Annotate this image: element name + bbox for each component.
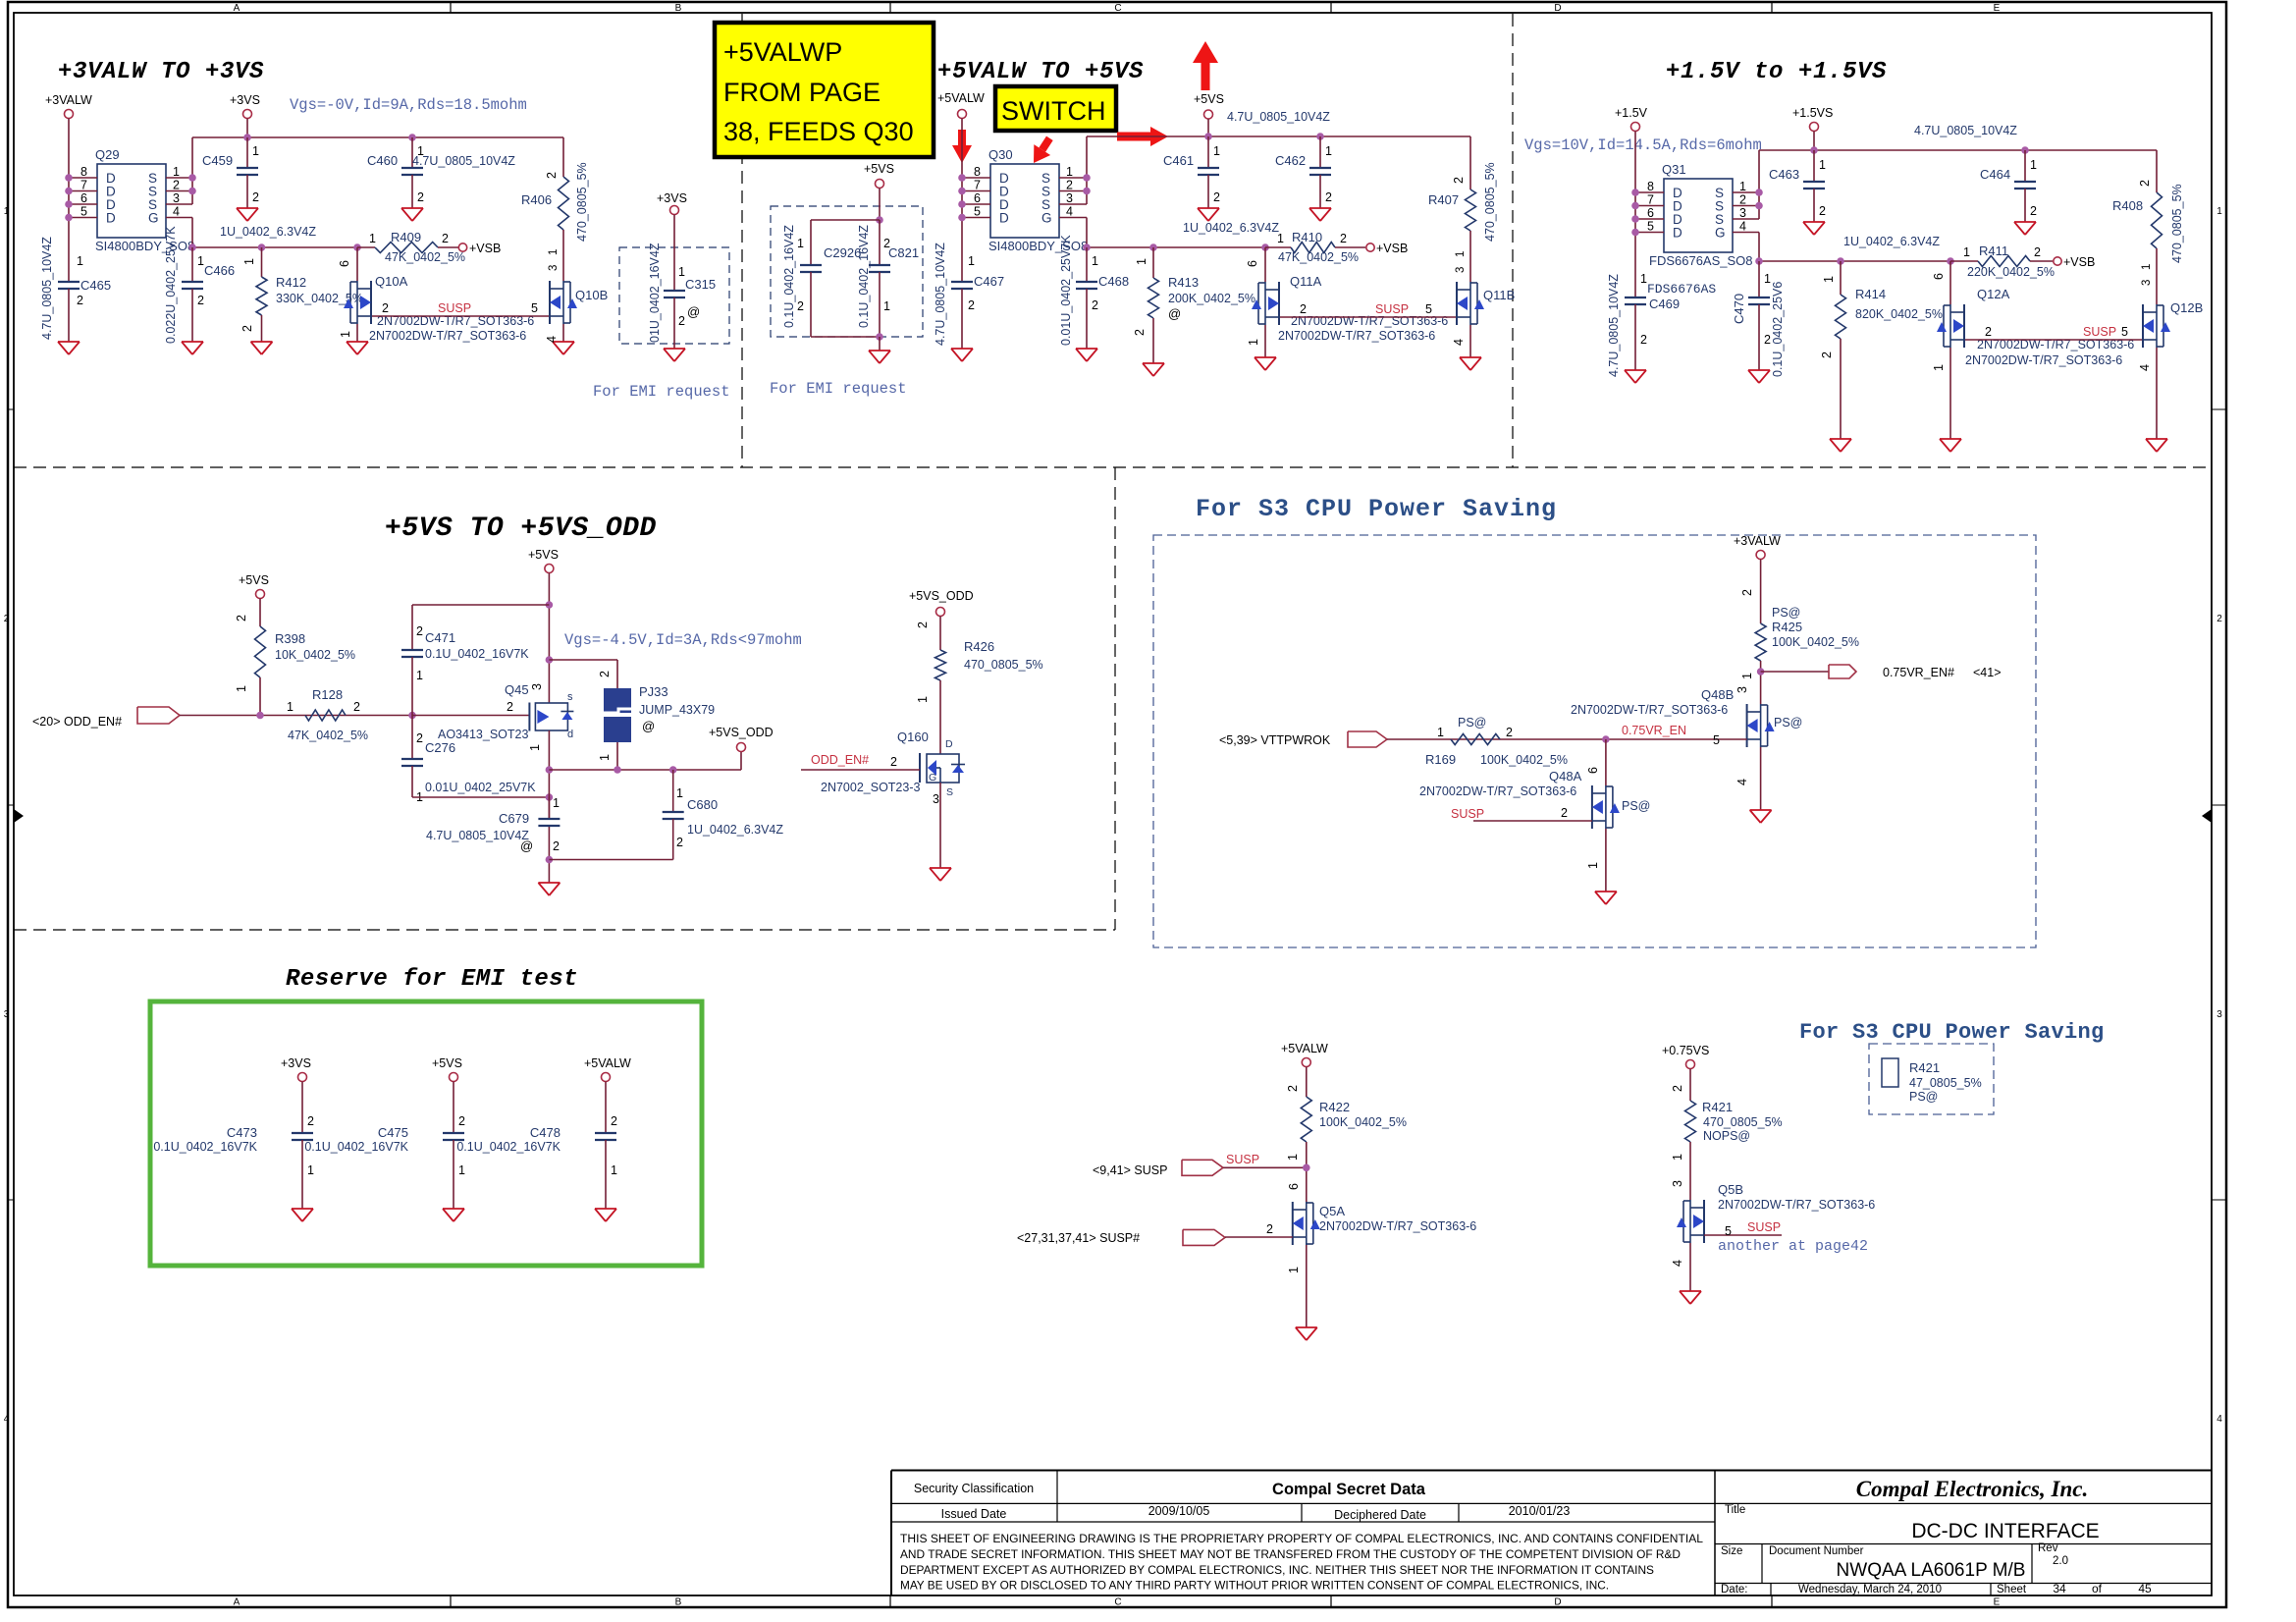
svg-text:C467: C467 [974,274,1004,289]
svg-text:1: 1 [235,685,248,692]
svg-text:R406: R406 [521,192,552,207]
svg-text:7: 7 [80,179,87,192]
svg-text:Q48B: Q48B [1701,687,1734,702]
svg-text:A: A [234,1597,240,1608]
svg-text:4: 4 [1739,220,1746,234]
svg-text:4: 4 [2138,364,2152,371]
svg-text:+5VS TO +5VS_ODD: +5VS TO +5VS_ODD [385,514,657,544]
svg-text:5: 5 [80,205,87,219]
svg-text:C821: C821 [888,245,919,260]
svg-text:Q5B: Q5B [1718,1182,1743,1197]
svg-text:Vgs=-4.5V,Id=3A,Rds<97mohm: Vgs=-4.5V,Id=3A,Rds<97mohm [564,631,802,649]
svg-text:2: 2 [1213,190,1220,204]
svg-text:1: 1 [2030,158,2037,172]
svg-text:2: 2 [353,700,360,714]
svg-text:1: 1 [1586,862,1600,869]
svg-text:FDS6676AS_SO8: FDS6676AS_SO8 [1649,253,1753,268]
svg-text:2: 2 [598,671,612,677]
svg-text:SUSP: SUSP [1375,302,1409,316]
svg-text:C462: C462 [1275,153,1306,168]
svg-text:Q10A: Q10A [375,274,408,289]
svg-text:5: 5 [1425,302,1432,316]
svg-text:R409: R409 [391,230,421,244]
svg-text:2: 2 [1266,1222,1273,1236]
svg-text:C: C [1114,1597,1121,1608]
svg-text:47_0805_5%: 47_0805_5% [1909,1076,1982,1090]
svg-text:6: 6 [1647,206,1654,220]
svg-text:3: 3 [530,683,544,690]
svg-text:1: 1 [416,669,423,682]
svg-text:C465: C465 [80,278,111,293]
svg-text:R421: R421 [1909,1060,1940,1075]
svg-text:2N7002DW-T/R7_SOT363-6: 2N7002DW-T/R7_SOT363-6 [1571,703,1728,717]
svg-text:47K_0402_5%: 47K_0402_5% [385,250,465,264]
svg-text:4.7U_0805_10V4Z: 4.7U_0805_10V4Z [1607,274,1621,377]
svg-text:R408: R408 [2112,198,2143,213]
svg-text:s: s [567,691,573,703]
svg-text:R169: R169 [1425,752,1456,767]
svg-text:1: 1 [1287,1267,1301,1273]
svg-text:1: 1 [1640,272,1647,286]
svg-text:2: 2 [235,615,248,622]
svg-text:C461: C461 [1163,153,1194,168]
svg-text:6: 6 [1932,273,1946,280]
svg-text:2: 2 [1739,193,1746,207]
svg-text:1: 1 [369,232,376,245]
svg-text:8: 8 [974,165,981,179]
svg-text:5: 5 [531,301,538,315]
svg-text:1: 1 [883,299,890,313]
svg-text:C469: C469 [1649,297,1680,311]
svg-text:1: 1 [2216,206,2222,217]
svg-text:1: 1 [1764,272,1771,286]
svg-text:MAY BE USED BY OR DISCLOSED TO: MAY BE USED BY OR DISCLOSED TO ANY THIRD… [900,1579,1609,1593]
svg-text:Q11A: Q11A [1290,274,1322,289]
svg-text:1U_0402_6.3V4Z: 1U_0402_6.3V4Z [220,225,316,239]
svg-text:Reserve for EMI test: Reserve for EMI test [286,966,578,993]
svg-text:1: 1 [339,331,352,338]
svg-text:E: E [1994,1597,2001,1608]
svg-text:+VSB: +VSB [469,242,501,255]
svg-text:C2926: C2926 [824,245,861,260]
svg-text:Date:: Date: [1721,1584,1748,1595]
svg-text:820K_0402_5%: 820K_0402_5% [1855,307,1943,321]
svg-text:1: 1 [528,744,542,751]
svg-text:+5VS_ODD: +5VS_ODD [709,726,774,739]
svg-text:DEPARTMENT EXCEPT AS AUTHORIZE: DEPARTMENT EXCEPT AS AUTHORIZED BY COMPA… [900,1563,1654,1577]
svg-text:6: 6 [1246,260,1259,267]
svg-text:1: 1 [1092,254,1098,268]
svg-text:1: 1 [968,254,975,268]
svg-text:8: 8 [80,165,87,179]
svg-text:1: 1 [1963,245,1970,259]
svg-text:1: 1 [611,1163,617,1177]
svg-text:THIS SHEET OF ENGINEERING DRAW: THIS SHEET OF ENGINEERING DRAWING IS THE… [900,1532,1703,1545]
svg-text:Q10B: Q10B [575,288,608,302]
svg-text:PS@: PS@ [1772,606,1800,620]
svg-text:For S3 CPU Power Saving: For S3 CPU Power Saving [1196,495,1557,523]
svg-text:+3VS: +3VS [281,1056,311,1070]
svg-text:<20> ODD_EN#: <20> ODD_EN# [32,715,122,729]
svg-text:3: 3 [4,1009,10,1020]
svg-text:R412: R412 [276,275,306,290]
svg-text:C679: C679 [499,811,529,826]
svg-text:NOPS@: NOPS@ [1703,1129,1750,1143]
svg-text:+5VALW: +5VALW [937,91,985,105]
svg-text:2: 2 [252,190,259,204]
svg-text:2: 2 [382,301,389,315]
svg-text:2: 2 [1506,726,1513,739]
svg-text:1: 1 [1437,726,1444,739]
svg-text:5: 5 [2121,325,2128,339]
svg-text:470_0805_5%: 470_0805_5% [575,162,589,242]
svg-text:C468: C468 [1098,274,1129,289]
svg-text:SWITCH: SWITCH [1001,96,1105,126]
svg-text:R422: R422 [1319,1100,1350,1114]
svg-text:+5VALW TO +5VS: +5VALW TO +5VS [937,59,1144,85]
svg-text:C473: C473 [227,1125,257,1140]
svg-text:+1.5V: +1.5V [1615,106,1648,120]
svg-text:C470: C470 [1732,294,1746,324]
svg-text:3: 3 [2141,280,2153,286]
svg-text:+3VS: +3VS [230,93,260,107]
svg-text:+3VS: +3VS [657,191,687,205]
svg-text:2: 2 [458,1114,465,1128]
svg-text:2010/01/23: 2010/01/23 [1509,1504,1571,1518]
svg-text:2N7002DW-T/R7_SOT363-6: 2N7002DW-T/R7_SOT363-6 [1278,329,1435,343]
svg-text:2: 2 [1133,329,1147,336]
svg-text:2N7002DW-T/R7_SOT363-6: 2N7002DW-T/R7_SOT363-6 [1965,353,2122,367]
svg-text:2: 2 [416,624,423,638]
svg-text:100K_0402_5%: 100K_0402_5% [1772,635,1859,649]
svg-text:7: 7 [1647,193,1654,207]
svg-text:D: D [1554,3,1561,14]
svg-text:1: 1 [242,258,256,265]
svg-text:4: 4 [545,336,559,343]
svg-text:Q160: Q160 [897,730,929,744]
svg-text:2: 2 [307,1114,314,1128]
svg-text:R398: R398 [275,631,305,646]
svg-text:3: 3 [1455,267,1467,273]
svg-text:D: D [1673,226,1682,241]
svg-text:Size: Size [1721,1545,1742,1557]
svg-text:1: 1 [1286,1154,1300,1161]
svg-text:SUSP: SUSP [1451,807,1484,821]
svg-text:E: E [1994,3,2001,14]
svg-text:C475: C475 [378,1125,408,1140]
svg-text:D: D [106,211,116,226]
svg-text:1: 1 [676,786,683,800]
svg-text:SI4800BDY_SO8: SI4800BDY_SO8 [95,239,194,253]
svg-text:PS@: PS@ [1458,716,1486,730]
svg-text:2: 2 [1740,589,1754,596]
svg-text:+3VALW: +3VALW [45,93,92,107]
svg-text:Q30: Q30 [988,147,1013,162]
svg-text:PS@: PS@ [1622,799,1650,813]
svg-text:2: 2 [1066,179,1073,192]
svg-text:G: G [148,211,159,226]
svg-text:1: 1 [678,265,685,279]
svg-text:1: 1 [1740,673,1754,679]
svg-text:C478: C478 [530,1125,561,1140]
svg-text:1: 1 [307,1163,314,1177]
svg-text:4: 4 [1066,205,1073,219]
svg-text:R421: R421 [1702,1100,1733,1114]
svg-text:4.7U_0805_10V4Z: 4.7U_0805_10V4Z [40,237,54,340]
svg-text:2: 2 [797,299,804,313]
svg-text:D: D [1554,1597,1561,1608]
svg-text:+5VS: +5VS [864,162,894,176]
svg-text:1: 1 [1213,144,1220,158]
svg-text:3: 3 [1671,1180,1684,1187]
svg-text:4: 4 [173,205,180,219]
svg-text:2: 2 [676,836,683,849]
svg-text:Security Classification: Security Classification [914,1482,1034,1495]
svg-text:2: 2 [611,1114,617,1128]
svg-text:B: B [675,3,682,14]
svg-text:+3VALW: +3VALW [1734,534,1781,548]
svg-text:@: @ [1168,306,1181,321]
svg-text:1: 1 [1455,251,1467,257]
svg-text:@: @ [642,719,655,733]
svg-text:2: 2 [1764,333,1771,347]
svg-text:R414: R414 [1855,287,1886,301]
svg-text:JUMP_43X79: JUMP_43X79 [639,703,715,717]
svg-text:6: 6 [974,191,981,205]
svg-text:200K_0402_5%: 200K_0402_5% [1168,292,1255,305]
svg-text:2: 2 [678,314,685,328]
svg-text:C680: C680 [687,797,718,812]
svg-text:R411: R411 [1979,243,2008,258]
svg-text:2: 2 [968,298,975,312]
svg-text:1: 1 [797,237,804,250]
svg-text:2: 2 [173,179,180,192]
svg-text:SUSP: SUSP [1747,1220,1781,1234]
svg-text:0.1U_0402_16V7K: 0.1U_0402_16V7K [425,647,529,661]
svg-text:1U_0402_6.3V4Z: 1U_0402_6.3V4Z [1843,235,1940,248]
svg-text:4: 4 [1452,339,1466,346]
svg-text:Q29: Q29 [95,147,120,162]
svg-text:2: 2 [4,614,10,624]
svg-text:Q48A: Q48A [1549,769,1582,784]
svg-text:100K_0402_5%: 100K_0402_5% [1319,1115,1407,1129]
svg-text:1: 1 [1819,158,1826,172]
svg-text:d: d [567,729,573,740]
svg-text:SUSP: SUSP [2083,325,2116,339]
svg-text:FROM PAGE: FROM PAGE [723,78,881,107]
svg-text:<5,39> VTTPWROK: <5,39> VTTPWROK [1219,733,1331,747]
svg-text:2: 2 [1671,1085,1684,1092]
svg-text:+5VS: +5VS [528,548,559,562]
svg-text:47K_0402_5%: 47K_0402_5% [288,729,368,742]
svg-text:3: 3 [1066,191,1073,205]
svg-text:Q45: Q45 [505,682,529,697]
svg-text:@: @ [520,838,533,853]
svg-text:2: 2 [1820,351,1834,358]
svg-text:0.75VR_EN: 0.75VR_EN [1622,724,1686,737]
svg-text:0.022U_0402_25V7K: 0.022U_0402_25V7K [164,226,178,344]
svg-text:220K_0402_5%: 220K_0402_5% [1967,265,2055,279]
svg-text:2N7002_SOT23-3: 2N7002_SOT23-3 [821,781,921,794]
svg-text:SUSP: SUSP [438,301,471,315]
svg-text:another at page42: another at page42 [1718,1238,1868,1255]
svg-text:45: 45 [2138,1582,2152,1595]
svg-text:C315: C315 [685,277,716,292]
svg-text:+1.5VS: +1.5VS [1792,106,1833,120]
svg-text:For EMI request: For EMI request [593,383,730,401]
svg-text:1: 1 [1066,165,1073,179]
svg-text:3: 3 [548,265,560,271]
svg-text:1: 1 [252,144,259,158]
svg-text:1: 1 [916,696,930,703]
svg-text:2: 2 [1640,333,1647,347]
svg-text:C463: C463 [1769,167,1799,182]
svg-text:R128: R128 [312,687,343,702]
svg-text:0.75VR_EN#: 0.75VR_EN# [1883,666,1954,679]
svg-text:Deciphered Date: Deciphered Date [1334,1508,1426,1522]
svg-text:1U_0402_6.3V4Z: 1U_0402_6.3V4Z [1183,221,1279,235]
svg-text:38, FEEDS Q30: 38, FEEDS Q30 [723,117,914,146]
svg-text:G: G [1715,226,1726,241]
svg-text:2N7002DW-T/R7_SOT363-6: 2N7002DW-T/R7_SOT363-6 [1291,314,1448,328]
svg-text:470_0805_5%: 470_0805_5% [2170,184,2184,263]
svg-text:Issued Date: Issued Date [941,1507,1007,1521]
svg-text:C466: C466 [204,263,235,278]
svg-text:C471: C471 [425,630,455,645]
svg-text:2N7002DW-T/R7_SOT363-6: 2N7002DW-T/R7_SOT363-6 [1419,784,1576,798]
svg-text:Rev: Rev [2038,1542,2058,1554]
svg-text:C276: C276 [425,740,455,755]
svg-text:For EMI request: For EMI request [770,380,907,398]
svg-text:Q12A: Q12A [1977,287,2010,301]
svg-text:3: 3 [1735,686,1749,693]
svg-text:1: 1 [197,254,204,268]
svg-text:PS@: PS@ [1909,1090,1938,1104]
svg-text:Compal Secret Data: Compal Secret Data [1272,1481,1426,1498]
svg-text:+5VS: +5VS [432,1056,462,1070]
svg-text:2.0: 2.0 [2053,1555,2068,1567]
svg-text:AND TRADE SECRET INFORMATION.: AND TRADE SECRET INFORMATION. THIS SHEET… [900,1547,1681,1561]
svg-text:Sheet: Sheet [1997,1584,2027,1595]
svg-text:Q5A: Q5A [1319,1204,1345,1218]
svg-text:1: 1 [598,754,612,761]
svg-text:B: B [675,1597,682,1608]
svg-text:+VSB: +VSB [2063,255,2095,269]
svg-text:+5VALW: +5VALW [584,1056,631,1070]
svg-text:4: 4 [4,1414,10,1425]
svg-text:4: 4 [2216,1414,2222,1425]
svg-text:2: 2 [2030,204,2037,218]
svg-text:<41>: <41> [1973,666,2002,679]
svg-text:2: 2 [240,325,254,332]
svg-text:Vgs=10V,Id=14.5A,Rds=6mohm: Vgs=10V,Id=14.5A,Rds=6mohm [1524,136,1762,154]
svg-text:1: 1 [77,254,83,268]
svg-text:01U_0402_16V4Z: 01U_0402_16V4Z [648,243,662,343]
svg-text:Q31: Q31 [1662,162,1686,177]
svg-text:FDS6676AS: FDS6676AS [1647,282,1716,297]
svg-text:AO3413_SOT23: AO3413_SOT23 [438,728,528,741]
svg-text:2N7002DW-T/R7_SOT363-6: 2N7002DW-T/R7_SOT363-6 [1319,1219,1476,1233]
svg-text:4.7U_0805_10V4Z: 4.7U_0805_10V4Z [934,243,947,346]
svg-text:2: 2 [1300,302,1307,316]
svg-text:C: C [1114,3,1121,14]
svg-text:4.7U_0805_10V4Z: 4.7U_0805_10V4Z [412,154,515,168]
svg-text:2N7002DW-T/R7_SOT363-6: 2N7002DW-T/R7_SOT363-6 [369,329,526,343]
svg-text:R413: R413 [1168,275,1199,290]
svg-text:2: 2 [1819,204,1826,218]
svg-text:C464: C464 [1980,167,2010,182]
svg-text:2N7002DW-T/R7_SOT363-6: 2N7002DW-T/R7_SOT363-6 [1718,1198,1875,1212]
svg-text:D: D [999,211,1009,226]
svg-text:2: 2 [2216,614,2222,624]
svg-text:C460: C460 [367,153,398,168]
svg-text:2: 2 [1286,1085,1300,1092]
svg-text:2: 2 [916,622,930,628]
svg-text:4.7U_0805_10V4Z: 4.7U_0805_10V4Z [1914,124,2017,137]
svg-text:4.7U_0805_10V4Z: 4.7U_0805_10V4Z [1227,110,1330,124]
svg-text:2: 2 [507,700,513,714]
svg-text:2: 2 [1985,325,1992,339]
svg-text:0.1U_0402_16V4Z: 0.1U_0402_16V4Z [857,225,871,328]
svg-text:5: 5 [1713,733,1720,747]
svg-text:Wednesday, March 24, 2010: Wednesday, March 24, 2010 [1798,1584,1942,1595]
svg-text:470_0805_5%: 470_0805_5% [964,658,1043,672]
svg-text:1: 1 [548,249,560,255]
svg-text:6: 6 [338,260,351,267]
svg-text:Q12B: Q12B [2170,300,2203,315]
svg-text:7: 7 [974,179,981,192]
svg-text:R425: R425 [1772,620,1802,634]
svg-text:3: 3 [173,191,180,205]
svg-text:470_0805_5%: 470_0805_5% [1483,162,1497,242]
svg-text:1: 1 [1739,180,1746,193]
svg-text:2009/10/05: 2009/10/05 [1148,1504,1210,1518]
svg-text:0.1U_0402_25V6: 0.1U_0402_25V6 [1771,282,1785,377]
svg-text:2: 2 [77,294,83,307]
svg-text:SI4800BDY_SO8: SI4800BDY_SO8 [988,239,1088,253]
svg-text:1: 1 [458,1163,465,1177]
svg-text:4.7U_0805_10V4Z: 4.7U_0805_10V4Z [426,829,529,842]
svg-text:PS@: PS@ [1774,716,1802,730]
svg-text:1: 1 [4,206,10,217]
svg-text:Vgs=-0V,Id=9A,Rds=18.5mohm: Vgs=-0V,Id=9A,Rds=18.5mohm [290,96,527,114]
svg-text:0.1U_0402_16V7K: 0.1U_0402_16V7K [456,1140,561,1154]
svg-text:2: 2 [417,190,424,204]
svg-text:<9,41> SUSP: <9,41> SUSP [1093,1163,1167,1177]
svg-text:1: 1 [1135,258,1148,265]
svg-text:8: 8 [1647,180,1654,193]
svg-text:SUSP: SUSP [1226,1153,1259,1166]
svg-text:+5VS: +5VS [1194,92,1224,106]
svg-text:2: 2 [1561,806,1568,820]
svg-text:+5VALW: +5VALW [1281,1042,1328,1055]
svg-text:2: 2 [442,232,449,245]
svg-text:5: 5 [1725,1224,1732,1238]
svg-text:+1.5V to +1.5VS: +1.5V to +1.5VS [1666,59,1887,85]
svg-text:Compal Electronics, Inc.: Compal Electronics, Inc. [1856,1477,2088,1501]
svg-text:1U_0402_6.3V4Z: 1U_0402_6.3V4Z [687,823,783,837]
svg-text:3: 3 [1739,206,1746,220]
svg-text:1: 1 [1671,1154,1684,1161]
svg-text:2: 2 [1340,232,1347,245]
svg-text:+5VALWP: +5VALWP [723,37,842,67]
svg-text:+5VS: +5VS [239,573,269,587]
svg-text:G: G [929,772,936,784]
svg-text:DC-DC INTERFACE: DC-DC INTERFACE [1911,1520,2099,1542]
svg-text:A: A [234,3,240,14]
svg-text:1: 1 [1822,276,1836,283]
svg-text:2: 2 [416,731,423,745]
